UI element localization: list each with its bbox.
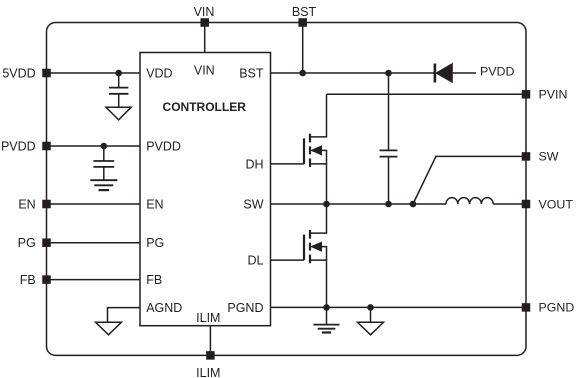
svg-text:SW: SW: [243, 198, 263, 212]
svg-text:SW: SW: [539, 150, 559, 164]
pad PVIN: [522, 90, 531, 99]
wire BST row: [271, 72, 435, 74]
capacitor C3 (bootstrap): [380, 73, 398, 204]
svg-text:PVDD: PVDD: [480, 64, 514, 78]
diode D1: [435, 64, 476, 83]
wire 5VDD row: [47, 72, 141, 74]
svg-text:PVDD: PVDD: [146, 140, 181, 154]
pad PVDD: [42, 142, 51, 151]
ground G1 (analog triangle under C1): [106, 107, 131, 120]
svg-text:FB: FB: [146, 273, 162, 287]
svg-text:ILIM: ILIM: [196, 311, 220, 325]
node N7 (SW/diagonal): [410, 201, 417, 208]
svg-text:BST: BST: [292, 5, 317, 19]
node N1 (5VDD/C1): [115, 70, 122, 77]
svg-text:PG: PG: [18, 236, 36, 250]
svg-text:DL: DL: [248, 254, 264, 268]
capacitor C2: [93, 146, 114, 180]
pad ILIM: [206, 351, 215, 360]
pad FB: [42, 275, 51, 284]
wire BST top: [302, 23, 304, 74]
wire EN row: [47, 203, 141, 205]
svg-text:PG: PG: [146, 236, 164, 250]
ground G4 (earth under Q2 source): [314, 307, 340, 332]
pad EN: [42, 200, 51, 209]
pad BST: [298, 18, 307, 27]
capacitor C1: [109, 73, 128, 107]
wire PVIN row: [327, 93, 527, 95]
node N5 (SW at Q1/Q2): [323, 201, 330, 208]
svg-text:BST: BST: [239, 67, 264, 81]
svg-text:PGND: PGND: [227, 301, 263, 315]
svg-text:PVIN: PVIN: [539, 88, 568, 102]
wire AGND: [108, 308, 141, 323]
svg-text:VIN: VIN: [194, 64, 215, 78]
node N2 (PVDD/C2): [101, 143, 108, 150]
svg-text:DH: DH: [245, 157, 263, 171]
wire ILIM: [209, 326, 211, 356]
transistor Q1 (high-side NMOS): [271, 94, 327, 204]
wire PG row: [47, 242, 141, 244]
svg-text:EN: EN: [146, 198, 163, 212]
node N4 (BST/C3/diode): [385, 70, 392, 77]
wire PVDD row: [47, 145, 141, 147]
node N3 (BST junction): [299, 70, 306, 77]
boundary box: [47, 23, 527, 356]
wire FB row: [47, 279, 141, 281]
pad VIN: [200, 18, 209, 27]
transistor Q2 (low-side NMOS): [271, 204, 327, 307]
pad VOUT: [522, 200, 531, 209]
svg-text:EN: EN: [18, 198, 35, 212]
svg-text:VOUT: VOUT: [539, 197, 574, 211]
node N9 (PGND/G5): [367, 304, 374, 311]
controller U1: [140, 53, 271, 326]
svg-text:VDD: VDD: [146, 67, 172, 81]
pad PG: [42, 238, 51, 247]
node N8 (PGND/Q2 source): [323, 304, 330, 311]
svg-text:AGND: AGND: [146, 301, 182, 315]
ground G2 (earth under C2): [90, 180, 117, 190]
pad PGND: [522, 303, 531, 312]
wire SW row: [271, 203, 447, 205]
node N6 (SW/C3): [385, 201, 392, 208]
ground G5 (analog triangle on PGND row): [358, 307, 384, 334]
svg-text:ILIM: ILIM: [196, 366, 220, 378]
pad SW: [522, 152, 531, 161]
svg-text:VIN: VIN: [194, 5, 215, 19]
svg-text:5VDD: 5VDD: [2, 67, 35, 81]
svg-text:PVDD: PVDD: [1, 140, 36, 154]
svg-text:CONTROLLER: CONTROLLER: [163, 100, 247, 114]
svg-text:FB: FB: [20, 273, 36, 287]
wire VIN top: [204, 23, 206, 53]
wire SW diagonal: [413, 156, 526, 204]
wire PGND row: [271, 306, 527, 308]
svg-text:PGND: PGND: [539, 301, 575, 315]
inductor L1: [446, 198, 526, 204]
pad 5VDD: [42, 69, 51, 78]
ground G3 (analog triangle at AGND): [96, 322, 122, 335]
